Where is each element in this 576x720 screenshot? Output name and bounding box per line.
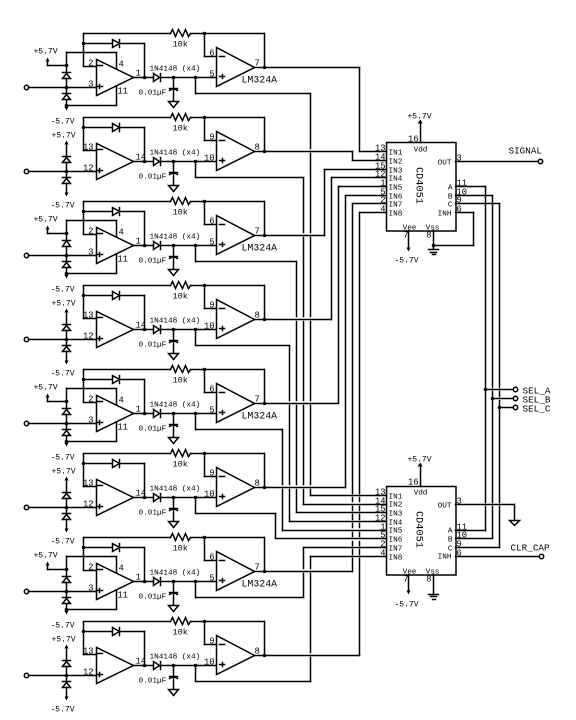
stage 1: wire feedback diode to output [120,43,145,45]
stage 2: junction capacitor node [172,160,176,164]
stage 3: op-amp inverting input marker [98,233,103,235]
svg-text:+5.7V: +5.7V [33,384,57,393]
stage 6: -5.7V supply arrow [66,520,68,529]
stage 3: junction buffer feedback node [203,200,207,204]
stage 1: clamp diode to -5.7V [66,88,68,94]
stage 7: junction buffer output [263,570,267,574]
stage 5: clamp diode to -5.7V [66,424,68,430]
stage 6: feedback diode [84,463,113,465]
stage 8: wire inverting input [84,654,97,656]
svg-text:INH: INH [438,211,452,219]
stage 7: feedback diode [84,547,113,549]
stage 5: buffer op-amp (pins 6,5,7) [217,384,255,423]
stage 6: junction at clamp node [65,506,69,510]
svg-text:10k: 10k [173,40,188,50]
stage 4: buffer inverting input marker [220,308,225,310]
svg-text:12: 12 [83,668,94,678]
stage 5: wire resistor to buffer feedback node [191,369,205,371]
stage 3: input terminal [24,253,28,257]
stage 1: junction buffer feedback node [203,32,207,36]
svg-text:10k: 10k [173,460,188,470]
stage 7: buffer op-amp (pins 6,5,7) [217,552,255,591]
stage 5: junction -5.7V node [65,440,69,444]
svg-text:C: C [448,202,453,210]
stage 8: junction buffer feedback node [203,620,207,624]
svg-text:IN8: IN8 [389,555,403,563]
stage 5: capacitor 0.01uF [173,414,175,425]
stage 6: op-amp inverting input marker [98,485,103,487]
svg-text:5: 5 [209,238,214,248]
stage 5: junction +5.7V node [65,400,69,404]
stage 4: resistor 10k [171,282,191,289]
stage 7: wire diode to buffer input [161,581,217,583]
stage 4: ground [169,354,179,360]
svg-text:11: 11 [118,591,129,601]
stage 2: wire resistor to buffer feedback node [191,117,205,119]
svg-text:LM324A: LM324A [242,75,278,86]
stage 6: wire resistor to buffer feedback node [191,453,205,455]
svg-text:7: 7 [403,575,408,585]
stage 4: op-amp (pins 13,12,14) [97,312,134,348]
stage 5: wire V+ pin 4 feed [66,389,68,402]
svg-text:3: 3 [88,416,93,426]
stage 5: junction at clamp node [65,422,69,426]
stage 7: wire input to op-amp + input [29,591,97,593]
stage 3: ground [169,270,179,276]
U2 +5.7V supply arrow [418,463,423,467]
stage 1: wire buffer inverting input [204,34,206,57]
stage 4: wire buffer feedback [205,285,265,287]
stage 3: resistor 10k [171,198,191,205]
stage 5: op-amp non-inverting input marker [98,422,103,424]
stage 7: +5.7V supply arrow [46,562,50,566]
stage 8: wire feedback diode to output [120,631,145,633]
stage 7: junction cap-node tap [194,580,198,584]
stage 2: diode 1N4148 [154,158,160,166]
terminal SEL_B [513,396,517,400]
wire U2 OUT to ground [456,504,515,506]
stage 4: junction buffer output [263,318,267,322]
stage 2: op-amp inverting input marker [98,149,103,151]
svg-text:+5.7V: +5.7V [407,113,431,122]
stage 6: buffer non-inverting input marker [220,496,225,498]
stage 1: junction feedback node [82,42,86,46]
svg-text:IN8: IN8 [389,211,403,219]
stage 8: wire diode to buffer input [161,665,217,667]
stage 8: clamp diode to -5.7V [66,676,68,682]
stage 8: junction buffer output [263,654,267,658]
svg-text:+5.7V: +5.7V [51,300,75,309]
stage 4: junction buffer feedback node [203,284,207,288]
stage 6: junction op-amp output [143,496,147,500]
stage 2: wire diode to buffer input [161,161,217,163]
stage 2: junction cap-node tap [194,160,198,164]
svg-text:IN5: IN5 [389,185,403,193]
stage 6: wire buffer feedback [205,453,265,455]
stage 3: junction capacitor node [172,244,176,248]
svg-text:10k: 10k [173,124,188,134]
stage 5: resistor 10k [171,366,191,373]
svg-text:10k: 10k [173,208,188,218]
stage 6: op-amp non-inverting input marker [98,506,103,508]
stage 4: op-amp inverting input marker [98,317,103,319]
stage 3: feedback diode [84,211,113,213]
stage 1: wire V+ pin 4 feed [66,53,68,66]
svg-text:1N4148 (x4): 1N4148 (x4) [150,486,201,494]
stage 8: feedback diode [84,631,113,633]
stage 3: diode 1N4148 [154,242,160,250]
svg-text:10: 10 [204,490,215,500]
stage 8: wire op-amp output [134,665,154,667]
wire stage 6 buffer output to U1 IN6 [255,487,346,489]
svg-text:7: 7 [403,231,408,241]
stage 1: buffer op-amp (pins 6,5,7) [217,48,255,87]
svg-text:10k: 10k [173,292,188,302]
stage 1: junction buffer output [263,66,267,70]
svg-text:INH: INH [438,554,452,562]
stage 1: wire inverting input [84,66,97,68]
svg-text:1N4148 (x4): 1N4148 (x4) [150,318,201,326]
stage 1: op-amp (pins 2,3,1) [97,60,134,96]
stage 3: wire feedback diode to output [120,211,145,213]
stage 3: junction +5.7V node [65,232,69,236]
wire stage 4 buffer output to U1 IN4 [255,319,332,321]
stage 1: wire op-amp output [134,77,154,79]
stage 1: feedback diode [84,43,113,45]
terminal SEL_A [513,387,517,391]
stage 5: junction capacitor node [172,412,176,416]
stage 8: junction feedback node [82,630,86,634]
terminal CLR_CAP [539,554,543,558]
svg-text:0.01µF: 0.01µF [139,426,167,434]
stage 2: capacitor 0.01uF [173,162,175,173]
wire SEL_C [500,407,514,409]
stage 2: input terminal [24,169,28,173]
stage 5: wire buffer feedback [205,369,265,371]
stage 4: wire feedback diode to output [120,295,145,297]
stage 3: clamp diode to +5.7V [66,234,68,241]
wire stage 8 capacitor node to U2 IN8 [195,666,197,682]
stage 8: ground [169,690,179,696]
stage 6: wire inverting input [84,486,97,488]
stage 5: wire inverting input [84,402,97,404]
svg-text:-5.7V: -5.7V [394,601,418,610]
stage 5: op-amp (pins 2,3,1) [97,396,134,432]
stage 1: wire diode to buffer input [161,77,217,79]
stage 3: wire buffer inverting input [204,202,206,225]
stage 7: wire V- pin 11 rail [67,609,117,611]
svg-text:Vdd: Vdd [414,147,428,155]
svg-text:IN7: IN7 [389,546,403,554]
stage 4: -5.7V supply arrow [66,352,68,361]
stage 1: wire resistor to buffer feedback node [191,33,205,35]
stage 3: clamp diode to -5.7V [66,256,68,262]
svg-text:IN5: IN5 [389,528,403,536]
svg-text:IN1: IN1 [389,150,403,158]
svg-text:0.01µF: 0.01µF [139,174,167,182]
stage 1: junction +5.7V node [65,64,69,68]
svg-text:3: 3 [88,248,93,258]
stage 6: wire buffer inverting input [204,454,206,477]
stage 6: buffer op-amp (pins 9,10,8) [217,468,255,507]
stage 1: clamp diode to +5.7V [66,66,68,73]
stage 1: -5.7V supply arrow [66,106,68,107]
stage 2: wire buffer inverting input [204,118,206,141]
svg-text:1N4148 (x4): 1N4148 (x4) [150,402,201,410]
stage 5: op-amp inverting input marker [98,401,103,403]
stage 2: -5.7V supply arrow [66,184,68,193]
stage 5: diode 1N4148 [154,410,160,418]
stage 3: -5.7V supply arrow [66,274,68,275]
stage 1: op-amp non-inverting input marker [98,86,103,88]
svg-text:10k: 10k [173,376,188,386]
stage 1: +5.7V supply arrow [46,58,50,62]
stage 7: buffer non-inverting input marker [220,580,225,582]
svg-text:5: 5 [209,574,214,584]
svg-text:4: 4 [119,228,124,238]
stage 8: input terminal [24,673,28,677]
stage 3: wire op-amp output [134,245,154,247]
stage 7: -5.7V supply arrow [66,610,68,611]
svg-text:12: 12 [83,164,94,174]
stage 1: junction capacitor node [172,76,176,80]
svg-text:+5.7V: +5.7V [51,132,75,141]
stage 3: wire V- pin 11 rail [67,273,117,275]
stage 4: feedback diode [84,295,113,297]
stage 6: junction cap-node tap [194,496,198,500]
wire stage 5 buffer output to U1 IN5 [255,403,339,405]
stage 6: buffer inverting input marker [220,476,225,478]
stage 8: junction op-amp output [143,664,147,668]
U2 -5.7V supply arrow at Vee [408,575,410,591]
svg-text:IN4: IN4 [389,176,403,184]
stage 3: wire inverting input [84,234,97,236]
svg-text:IN3: IN3 [389,511,403,519]
stage 6: +5.7V supply arrow [65,477,69,481]
stage 5: wire +5.7V to clamp junction [48,401,67,403]
stage 8: buffer inverting input marker [220,644,225,646]
svg-text:1N4148 (x4): 1N4148 (x4) [150,66,201,74]
svg-text:0.01µF: 0.01µF [139,342,167,350]
svg-text:B: B [448,194,453,202]
stage 6: ground [169,522,179,528]
stage 6: clamp diode to +5.7V [63,492,71,494]
svg-text:3: 3 [88,80,93,90]
stage 7: wire inverting input [84,570,97,572]
svg-text:4: 4 [119,564,124,574]
svg-text:1N4148 (x4): 1N4148 (x4) [150,570,201,578]
wire stage 5 capacitor node to U2 IN5 [195,414,197,430]
stage 1: junction -5.7V node [65,104,69,108]
svg-text:CLR_CAP: CLR_CAP [511,543,550,554]
svg-text:SIGNAL: SIGNAL [509,146,542,157]
stage 5: wire feedback diode to output [120,379,145,381]
terminal SIGNAL [538,159,542,163]
stage 6: clamp diode to -5.7V [66,508,68,514]
stage 7: wire feedback diode to output [120,547,145,549]
svg-text:IN1: IN1 [389,494,403,502]
wire stage 3 capacitor node to U2 IN3 [195,246,197,262]
svg-text:1N4148 (x4): 1N4148 (x4) [150,234,201,242]
svg-text:+5.7V: +5.7V [51,636,75,645]
stage 1: ground [169,102,179,108]
stage 4: +5.7V supply arrow [65,309,69,313]
svg-text:IN3: IN3 [389,168,403,176]
stage 6: wire diode to buffer input [161,497,217,499]
stage 1: wire input to op-amp + input [29,87,97,89]
stage 4: wire diode to buffer input [161,329,217,331]
wire U2 INH to CLR_CAP terminal [456,556,539,558]
wire U2 Vss pin 8 [433,575,435,595]
stage 3: junction at clamp node [65,254,69,258]
svg-text:10k: 10k [173,628,188,638]
stage 2: buffer op-amp (pins 9,10,8) [217,132,255,171]
stage 8: op-amp non-inverting input marker [98,674,103,676]
svg-text:10: 10 [204,658,215,668]
stage 2: clamp diode to +5.7V [63,156,71,158]
svg-text:IN2: IN2 [389,159,403,167]
wire U1 Vss pin 8 [433,231,435,250]
stage 3: wire input to op-amp + input [29,255,97,257]
stage 3: junction op-amp output [143,244,147,248]
stage 4: buffer non-inverting input marker [220,328,225,330]
svg-text:A: A [448,528,453,536]
svg-text:-5.7V: -5.7V [50,706,74,715]
stage 1: diode 1N4148 [154,74,160,82]
stage 4: buffer op-amp (pins 9,10,8) [217,300,255,339]
wire SEL_A [486,389,514,391]
stage 1: wire buffer feedback [205,33,265,35]
junction SEL_C tap [498,406,502,410]
svg-text:5: 5 [209,406,214,416]
stage 7: junction op-amp output [143,580,147,584]
svg-text:12: 12 [83,332,94,342]
wire U1 OUT to SIGNAL terminal [456,161,539,163]
stage 4: junction at clamp node [65,338,69,342]
stage 8: op-amp inverting input marker [98,653,103,655]
stage 2: wire feedback diode to output [120,127,145,129]
stage 5: input terminal [24,421,28,425]
stage 8: junction at clamp node [65,674,69,678]
svg-text:11: 11 [118,87,129,97]
svg-text:-5.7V: -5.7V [50,622,74,631]
stage 5: junction feedback node [82,378,86,382]
stage 1: input terminal [24,85,28,89]
stage 5: wire diode to buffer input [161,413,217,415]
stage 2: feedback diode [84,127,113,129]
multiplexer U2 CD4051 body [387,487,457,576]
stage 1: buffer inverting input marker [220,56,225,58]
stage 4: diode 1N4148 [154,326,160,334]
stage 7: wire V+ pin 4 feed [66,557,68,570]
stage 5: wire V- pin 11 rail [67,441,117,443]
stage 3: wire diode to buffer input [161,245,217,247]
svg-text:LM324A: LM324A [242,243,278,254]
stage 2: wire buffer feedback [205,117,265,119]
svg-text:IN7: IN7 [389,202,403,210]
ground U2 OUT [510,521,520,526]
svg-text:IN4: IN4 [389,520,403,528]
svg-text:11: 11 [118,255,129,265]
stage 4: wire resistor to buffer feedback node [191,285,205,287]
svg-text:-5.7V: -5.7V [50,118,74,127]
stage 5: +5.7V supply arrow [46,394,50,398]
svg-text:12: 12 [83,500,94,510]
stage 4: wire op-amp output [134,329,154,331]
stage 2: buffer inverting input marker [220,140,225,142]
wire U1 A to U2 A (select bus A) [456,186,486,188]
stage 3: buffer inverting input marker [220,224,225,226]
wire stage 7 buffer output to U1 IN7 [255,571,353,573]
stage 1: buffer non-inverting input marker [220,76,225,78]
svg-text:1N4148 (x4): 1N4148 (x4) [150,150,201,158]
stage 5: clamp diode to +5.7V [66,402,68,409]
stage 4: clamp diode to -5.7V [66,340,68,346]
svg-text:4: 4 [119,396,124,406]
svg-text:B: B [448,537,453,545]
stage 2: op-amp (pins 13,12,14) [97,144,134,180]
stage 7: resistor 10k [171,534,191,541]
stage 5: buffer non-inverting input marker [220,412,225,414]
stage 2: op-amp non-inverting input marker [98,170,103,172]
stage 8: wire top to 10k resistor [84,621,171,623]
svg-text:16: 16 [408,478,419,488]
stage 6: input terminal [24,505,28,509]
stage 8: op-amp (pins 13,12,14) [97,648,134,684]
svg-text:11: 11 [118,423,129,433]
stage 5: wire top to 10k resistor [84,369,171,371]
stage 2: ground [169,186,179,192]
svg-text:0.01µF: 0.01µF [139,90,167,98]
stage 2: wire input to op-amp + input [29,171,97,173]
stage 6: junction feedback node [82,462,86,466]
stage 6: resistor 10k [171,450,191,457]
svg-text:CD4051: CD4051 [413,167,425,204]
stage 6: junction buffer output [263,486,267,490]
svg-text:4: 4 [119,60,124,70]
stage 2: +5.7V supply arrow [65,141,69,145]
svg-text:-5.7V: -5.7V [50,370,74,379]
wire stage 2 buffer output to U1 IN2 [255,151,353,153]
stage 6: wire op-amp output [134,497,154,499]
stage 5: junction buffer feedback node [203,368,207,372]
svg-text:8: 8 [426,575,431,585]
svg-text:IN2: IN2 [389,502,403,510]
stage 6: junction capacitor node [172,496,176,500]
stage 8: +5.7V supply arrow [65,645,69,649]
stage 4: junction feedback node [82,294,86,298]
stage 3: junction feedback node [82,210,86,214]
svg-text:+5.7V: +5.7V [33,216,57,225]
stage 7: junction feedback node [82,546,86,550]
stage 3: wire resistor to buffer feedback node [191,201,205,203]
svg-text:CD4051: CD4051 [413,511,425,548]
stage 7: wire buffer feedback [205,537,265,539]
stage 3: capacitor 0.01uF [173,246,175,257]
svg-text:C: C [448,546,453,554]
stage 3: junction cap-node tap [194,244,198,248]
stage 8: junction cap-node tap [194,664,198,668]
stage 8: clamp diode to +5.7V [63,660,71,662]
stage 5: wire input to op-amp + input [29,423,97,425]
stage 5: wire buffer inverting input [204,370,206,393]
stage 6: wire top to 10k resistor [84,453,171,455]
svg-text:0.01µF: 0.01µF [139,678,167,686]
stage 7: wire op-amp output [134,581,154,583]
stage 4: junction capacitor node [172,328,176,332]
stage 8: wire buffer feedback [205,621,265,623]
wire U1 C to U2 C (select bus C) [456,203,500,205]
